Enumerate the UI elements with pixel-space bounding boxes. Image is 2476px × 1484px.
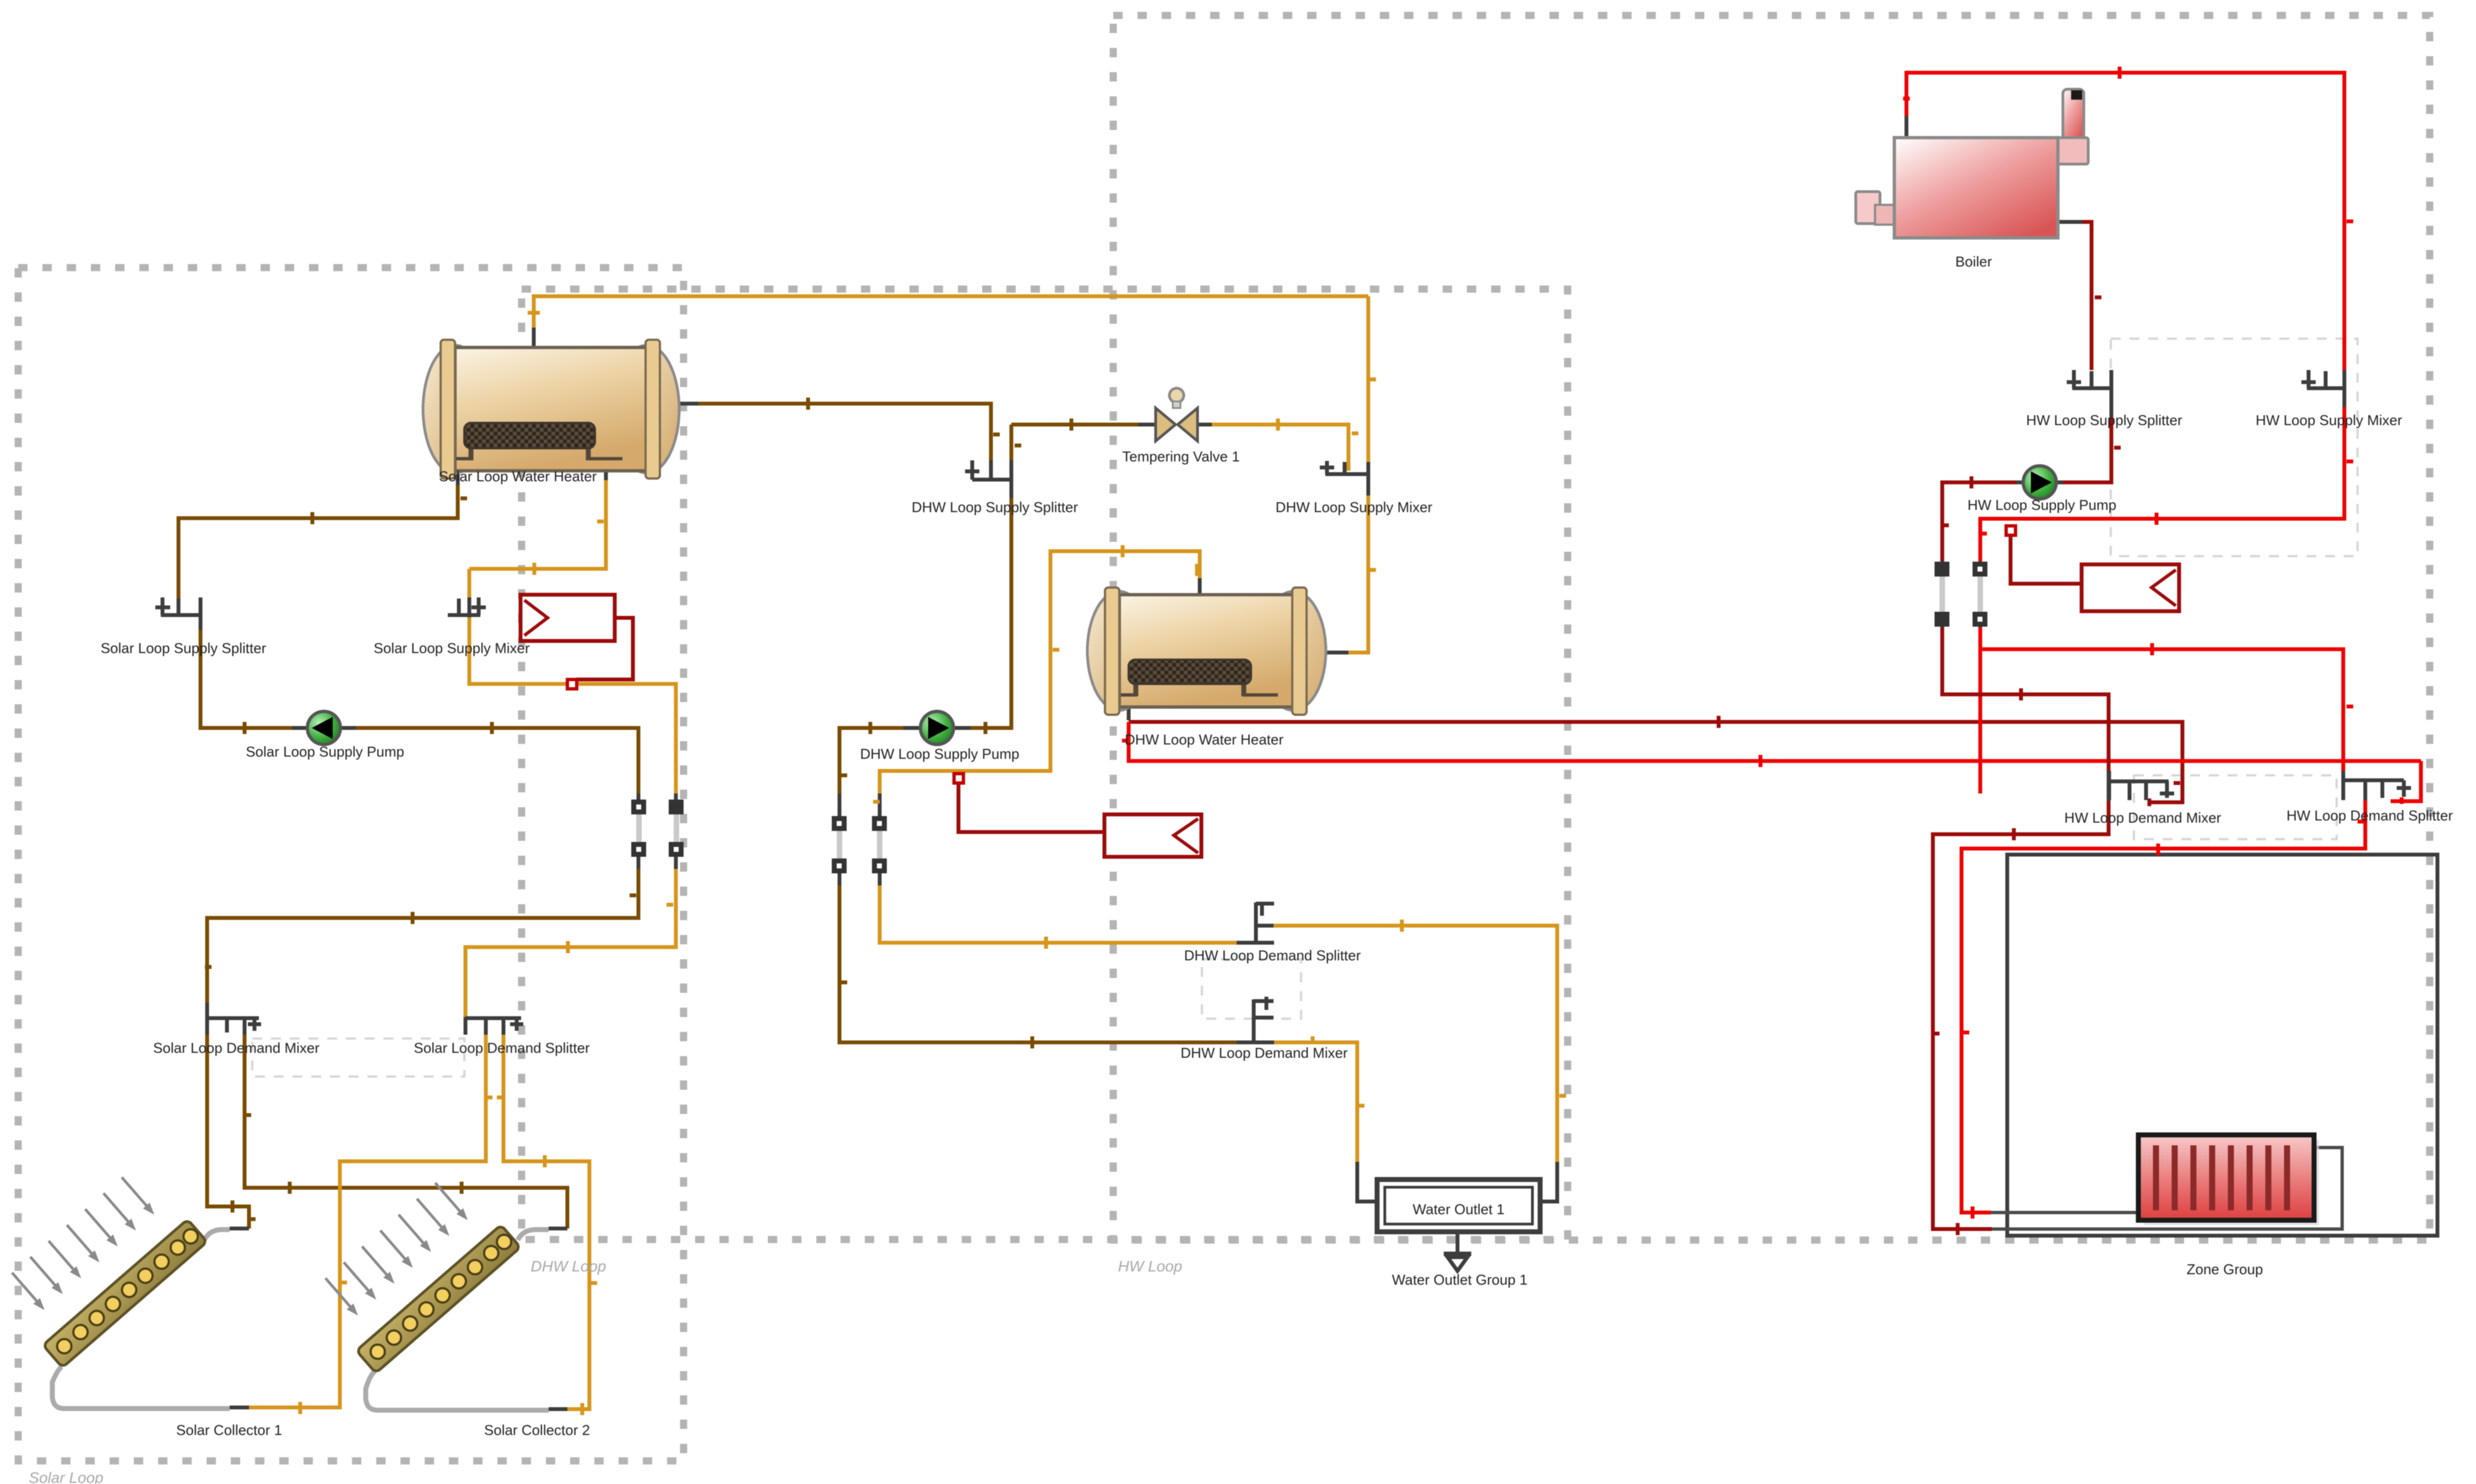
wire: DHW-solar connector right column (orange x=1597) <box>878 793 882 885</box>
connector pair: HW zone link right <box>1973 562 1987 627</box>
svg-text:Water Outlet 1: Water Outlet 1 <box>1413 1201 1505 1217</box>
mixer: Solar Loop Demand Mixer comb <box>207 1003 261 1035</box>
svg-text:DHW Loop Supply Splitter: DHW Loop Supply Splitter <box>912 499 1078 515</box>
pump: DHW Loop Supply Pump <box>920 711 953 744</box>
heat exchanger: HW loop setpoint box <box>2006 526 2179 611</box>
outlet arrow: Water Outlet Group 1 <box>1444 1232 1471 1271</box>
wire: HW supply splitter leg to pump <box>2110 406 2114 418</box>
connector pair: DHW-HW interloop link right <box>872 816 887 873</box>
connector pair: solar-DHW interloop link right <box>669 800 684 857</box>
wire: solar tank top stub <box>532 328 536 347</box>
inner dashed rect: HW supply zone hint <box>2111 339 2358 556</box>
wire: HW supply mixer leg down (red x=4256) <box>1980 406 2344 793</box>
wire: collector1 cold grey pipe <box>52 1367 230 1409</box>
wire: collector2 cold grey pipe <box>366 1371 549 1410</box>
wire: DHW tank top loop (orange) <box>1198 578 1202 595</box>
wire: HW demand splitter hook (red) <box>2391 761 2421 801</box>
svg-text:DHW Loop Supply Mixer: DHW Loop Supply Mixer <box>1276 499 1433 515</box>
svg-text:Zone Group: Zone Group <box>2187 1261 2263 1278</box>
svg-text:HW Loop: HW Loop <box>1118 1258 1183 1275</box>
svg-text:Solar Loop Supply Mixer: Solar Loop Supply Mixer <box>373 640 530 656</box>
wire: HW connector left red column <box>1979 561 1982 627</box>
wire: DHW splitter leg down to pump line <box>1010 460 1014 498</box>
tank: Solar Loop Water Heater <box>423 340 679 479</box>
boiler: Boiler <box>1856 89 2088 238</box>
wire: boiler top to HW supply mixer (red) <box>1905 116 1909 138</box>
svg-text:Solar Loop Supply Pump: Solar Loop Supply Pump <box>246 743 404 760</box>
dashed box: DHW Loop <box>522 289 1568 1240</box>
wire: tank1 bottom-left to solar supply splitter (brown) <box>456 471 460 485</box>
dashed box: Solar Loop <box>18 268 684 1461</box>
splitter: Solar Loop Supply Splitter <box>155 597 201 617</box>
wire: collector1 hot grey pipe <box>204 1230 230 1240</box>
svg-text:Solar Loop Water Heater: Solar Loop Water Heater <box>439 468 597 485</box>
splitter: DHW Loop Demand Splitter comb <box>1256 903 1274 943</box>
wire: DHW tank to HW demand mixer (dark red y=1311) <box>1129 722 2182 802</box>
wire: solar demand mixer down leg to collector2 hot <box>245 1035 567 1228</box>
mixer: DHW Loop Supply Mixer <box>1320 461 1368 486</box>
wire: solar supply mixer column (orange x=852) <box>468 569 472 599</box>
dashed box: HW Loop <box>1113 15 2430 1240</box>
wire: DHW pump line <box>903 726 971 730</box>
wire: DHW demand splitter to water outlet right (orange) <box>1274 926 1557 1162</box>
mixer: DHW Loop Demand Mixer comb <box>1254 997 1274 1042</box>
wire: HW connector dark red column <box>1941 561 1944 627</box>
wire: tank1 right to DHW splitter (brown y=738) <box>679 402 698 406</box>
svg-text:DHW Loop Demand Splitter: DHW Loop Demand Splitter <box>1184 947 1361 964</box>
svg-text:HW Loop Supply Splitter: HW Loop Supply Splitter <box>2026 412 2182 428</box>
heat exchanger: solar loop setpoint box <box>521 595 633 689</box>
wire: DHW tank to HW demand splitter (red y=1382) <box>1129 722 2421 761</box>
wire: solar demand splitter leg to collector2 cold <box>503 1035 589 1409</box>
splitter: DHW Loop Supply Splitter <box>965 460 1012 480</box>
collector: Solar Collector 2 <box>307 1168 521 1373</box>
mixer: HW Loop Supply Mixer <box>2301 370 2344 407</box>
wire: solar connector brown column x=1159 <box>637 793 641 869</box>
wire: radiator supply grey <box>1991 1211 2140 1214</box>
svg-text:HW Loop Demand Mixer: HW Loop Demand Mixer <box>2065 809 2222 826</box>
collector: Solar Collector 1 <box>0 1163 207 1368</box>
wire: tempering valve line left (brown y=771) <box>1011 425 1139 460</box>
connector pair: solar-DHW interloop link left <box>631 800 646 857</box>
svg-text:HW Loop Supply Mixer: HW Loop Supply Mixer <box>2256 412 2402 428</box>
wire: HW demand mixer leg to zone return <box>1933 801 2109 1229</box>
svg-text:HW Loop Demand Splitter: HW Loop Demand Splitter <box>2287 807 2453 824</box>
svg-text:HW Loop Supply Pump: HW Loop Supply Pump <box>1968 497 2116 513</box>
tank: DHW Loop Water Heater <box>1087 588 1326 715</box>
wire: DHW-solar connector left column (brown x=1524) <box>838 793 842 816</box>
svg-text:Water Outlet Group 1: Water Outlet Group 1 <box>1392 1271 1527 1288</box>
wire: DHW demand mixer to water outlet left (orange) <box>1274 1042 1357 1162</box>
solid box: Zone Group <box>2007 855 2437 1236</box>
mixer: HW Loop Demand Mixer comb <box>2109 771 2174 800</box>
wire: DHW tank right port stub <box>1322 651 1348 655</box>
wire: tempering valve line right (orange) <box>1212 425 1348 471</box>
svg-text:Solar Loop Supply Splitter: Solar Loop Supply Splitter <box>101 640 267 656</box>
inner dashed rect: HW demand zone hint <box>2134 775 2337 839</box>
wire: HW pump line <box>2016 481 2063 485</box>
svg-text:Tempering Valve 1: Tempering Valve 1 <box>1122 448 1239 465</box>
heat exchanger: DHW loop setpoint box <box>954 774 1201 857</box>
wire: solar demand splitter leg to collector1 cold <box>249 1035 486 1407</box>
pump: HW Loop Supply Pump <box>2023 466 2056 499</box>
junction ticks: HW wires <box>1903 67 2364 1219</box>
svg-text:DHW Loop Supply Pump: DHW Loop Supply Pump <box>860 746 1019 762</box>
svg-text:Solar Collector 2: Solar Collector 2 <box>484 1422 590 1438</box>
inner dashed rect: DHW demand zone hint <box>1202 959 1301 1019</box>
svg-text:Solar Loop Demand Splitter: Solar Loop Demand Splitter <box>414 1040 590 1056</box>
wire: solar connector orange column x=1227 <box>674 793 678 869</box>
wire: HX3 sensor line (dark red) <box>2011 536 2082 584</box>
wire: solar demand mixer top stub <box>205 1003 209 1017</box>
wire: solar demand mixer left leg to collector1 hot <box>207 1035 249 1228</box>
svg-text:DHW Loop Demand Mixer: DHW Loop Demand Mixer <box>1180 1045 1348 1061</box>
inner dashed rect: solar demand zone hint <box>252 1039 464 1077</box>
wire: solar tank top to DHW supply (orange, y=538) <box>534 296 1368 338</box>
wire: zone return grey under radiator <box>1992 1148 2342 1229</box>
wire: tank1 bottom-right port (orange) <box>604 471 608 480</box>
svg-text:DHW Loop Water Heater: DHW Loop Water Heater <box>1125 731 1283 748</box>
radiator: zone radiator <box>2138 1135 2319 1225</box>
junction ticks: solar wires <box>205 498 636 1219</box>
splitter: Solar Loop Demand Splitter comb <box>465 1017 523 1035</box>
svg-text:Solar Loop: Solar Loop <box>29 1469 103 1484</box>
mixer: Solar Loop Supply Mixer <box>448 597 486 617</box>
svg-text:Solar Collector 1: Solar Collector 1 <box>176 1422 282 1438</box>
wire: collector2 hot grey pipe <box>518 1230 549 1240</box>
wire: solar supply splitter leg to pump <box>199 617 203 630</box>
splitter: HW Loop Supply Splitter <box>2067 370 2111 407</box>
wire: HW demand splitter to radiator supply (red) <box>1962 800 2365 1213</box>
connector pair: HW zone link left <box>1935 562 1949 627</box>
svg-text:Solar Loop Demand Mixer: Solar Loop Demand Mixer <box>153 1040 319 1056</box>
wire: DHW demand mixer stubs <box>1237 1041 1274 1045</box>
svg-text:Boiler: Boiler <box>1955 253 1992 270</box>
pump: Solar Loop Supply Pump <box>307 711 340 744</box>
wire: solar pump line <box>292 726 356 730</box>
valve: Tempering Valve 1 <box>1156 388 1198 441</box>
svg-text:DHW Loop: DHW Loop <box>531 1258 606 1275</box>
wire: DHW supply mixer drop (orange x=2484) <box>1367 296 1370 462</box>
water outlet: Water Outlet 1 <box>1377 1179 1540 1232</box>
splitter: HW Loop Demand Splitter comb <box>2343 771 2411 800</box>
wire: boiler bottom out (dark red) <box>2058 220 2082 224</box>
connector pair: DHW-HW interloop link left <box>832 816 847 873</box>
wire: DHW tank bottom stub <box>1127 706 1131 720</box>
junction ticks: solar/DHW wires <box>528 313 1566 1106</box>
